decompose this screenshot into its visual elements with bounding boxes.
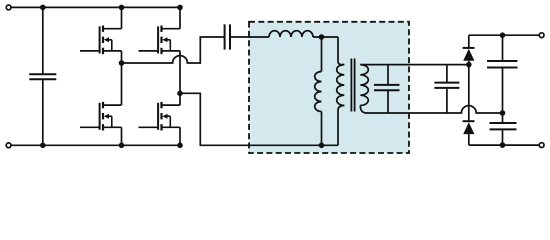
wire D1 anode junction down to D2	[468, 65, 470, 122]
wire node A to Q2 drain	[121, 63, 123, 105]
node dot Q1 drain	[119, 5, 125, 11]
node dot bottom rail / Cin	[40, 143, 46, 149]
node dot A (left leg midpoint)	[119, 60, 125, 66]
wire node B to Q4 drain	[179, 93, 181, 105]
node dot Lm top	[319, 34, 325, 40]
output terminal -	[539, 143, 544, 148]
wire output +	[469, 34, 539, 36]
wire secondary bottom with hop over diode branch	[367, 106, 503, 113]
transistor Q4	[139, 102, 181, 131]
wire Q1 source to node A	[121, 51, 123, 63]
transformer T1 secondary	[360, 65, 368, 106]
node dot top rail / Cin	[40, 5, 46, 11]
wire Q3 drain to top rail	[179, 7, 181, 28]
capacitor Co2	[502, 113, 504, 145]
node dot Q4 source	[177, 143, 183, 149]
wire Cr to Lr	[230, 36, 269, 38]
node dot secondary bottom / Co midpoint	[500, 110, 506, 116]
capacitor Cr plates	[225, 24, 230, 49]
node dot Q3 drain	[177, 5, 183, 11]
wire Q4 source to bottom rail	[179, 127, 181, 145]
transformer T1 core	[351, 59, 354, 112]
node dot B (right leg midpoint)	[177, 91, 183, 97]
wire Q3 source to node B	[179, 51, 181, 93]
inductor Lr	[269, 31, 313, 37]
capacitor Cin plates	[29, 74, 56, 79]
wire output -	[469, 144, 539, 146]
inductor Lm	[321, 37, 323, 145]
diode D2	[463, 120, 475, 122]
node dot output - / Co2	[500, 142, 506, 148]
wire bottom rail	[11, 144, 180, 146]
input terminal -	[6, 143, 11, 148]
wire top rail	[11, 6, 180, 8]
capacitor C parallel (in box)	[387, 65, 389, 113]
transformer T1 primary	[338, 37, 344, 65]
transistor Q1	[80, 26, 122, 55]
wire Q2 source to bottom rail	[121, 127, 123, 145]
wire node B to return rail	[180, 93, 338, 145]
transistor Q2	[80, 102, 122, 131]
input terminal +	[6, 5, 11, 10]
transistor Q3	[139, 26, 181, 55]
diode D1	[468, 35, 470, 48]
resonant tank dashed box	[249, 22, 409, 153]
wire Lr to primary	[313, 36, 338, 38]
output terminal +	[539, 33, 544, 38]
node dot Q2 source	[119, 143, 125, 149]
wire Q1 drain to top rail	[121, 7, 123, 28]
capacitor Co1	[502, 35, 504, 113]
wire secondary top to diodes	[360, 64, 469, 66]
capacitor Cin leads	[42, 7, 44, 145]
node dot D1 anode	[466, 62, 472, 68]
node dot Lm bottom	[319, 143, 325, 149]
capacitor C1	[446, 65, 448, 113]
wire node A to Cr with hop	[122, 37, 225, 63]
node dot output + / Co1	[500, 32, 506, 38]
